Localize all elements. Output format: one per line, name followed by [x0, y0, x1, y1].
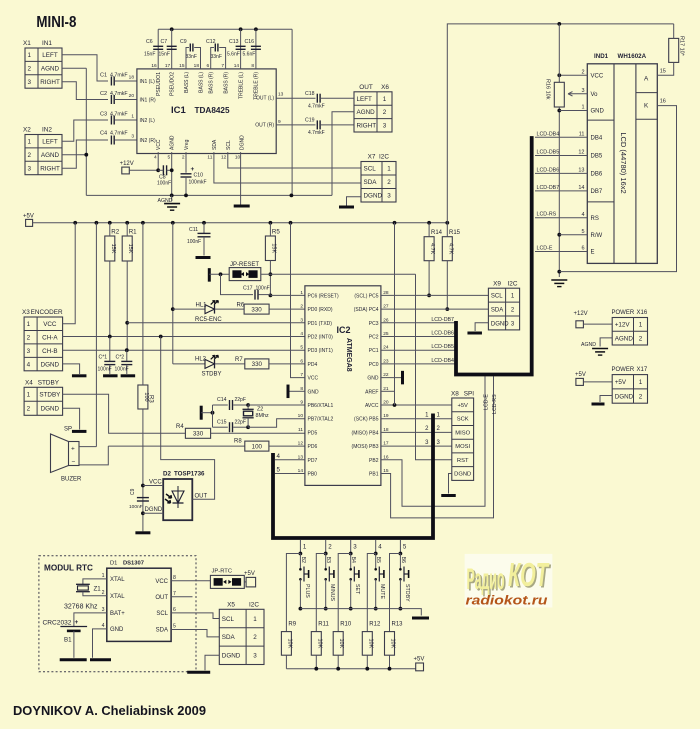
ground left of JP-RESET [209, 268, 229, 282]
svg-text:OUT: OUT [155, 595, 168, 601]
ground X4 DGND [63, 408, 87, 431]
crystal Z2 8Mhz [243, 403, 269, 429]
svg-text:AGND: AGND [581, 342, 596, 348]
svg-text:SCL: SCL [226, 140, 232, 150]
svg-text:RIGHT: RIGHT [40, 79, 60, 86]
svg-text:R10: R10 [340, 622, 352, 628]
svg-text:3: 3 [28, 79, 32, 86]
ground X8 DGND [441, 474, 456, 496]
module box MODUL RTC dotted [39, 556, 196, 672]
svg-text:POWER: POWER [612, 310, 635, 316]
svg-text:K: K [644, 103, 649, 110]
wire LCD-DB7 from bus to LCD [535, 185, 587, 191]
wire SCK to X8 through bus [381, 413, 452, 419]
svg-text:C6: C6 [146, 39, 153, 45]
svg-text:C9: C9 [130, 488, 136, 495]
svg-text:10K: 10K [316, 639, 322, 649]
svg-text:X2: X2 [23, 127, 31, 134]
wire XTAL2 to IC2 [248, 419, 305, 428]
svg-text:GND: GND [308, 389, 320, 395]
svg-text:D1: D1 [110, 561, 117, 567]
wire LCD-RS from bus to LCD [535, 212, 587, 218]
svg-text:6: 6 [581, 246, 584, 252]
capacitor C7 15nF [159, 29, 177, 69]
svg-text:100nF: 100nF [157, 181, 171, 187]
svg-text:5: 5 [581, 229, 584, 235]
svg-text:330: 330 [251, 306, 262, 313]
svg-text:PC2: PC2 [369, 335, 379, 341]
svg-text:PSEUDO2: PSEUDO2 [170, 72, 176, 96]
svg-text:OUT (R): OUT (R) [255, 123, 274, 129]
svg-text:−: − [72, 459, 76, 466]
button B6 STDBY [399, 554, 410, 611]
svg-text:2: 2 [300, 304, 303, 310]
svg-text:SET: SET [354, 584, 360, 595]
ground AGND at X16 [581, 338, 612, 355]
svg-text:1: 1 [27, 321, 31, 328]
svg-text:IN1 (R): IN1 (R) [140, 98, 156, 104]
potentiometer R16 10k contrast [544, 24, 587, 277]
svg-text:1: 1 [28, 139, 32, 146]
capacitor C3 4.7mkF [100, 112, 137, 125]
svg-text:IC1: IC1 [171, 105, 187, 116]
svg-text:32768 Khz: 32768 Khz [64, 604, 98, 611]
ground X17 DGND [592, 396, 613, 405]
svg-text:9: 9 [300, 400, 303, 406]
svg-text:R17 10*: R17 10* [679, 36, 685, 57]
svg-text:100mkF: 100mkF [189, 180, 207, 186]
svg-text:WH1602A: WH1602A [618, 53, 647, 60]
svg-text:X4: X4 [25, 379, 33, 386]
wire OUT L from pin 13 [276, 97, 315, 99]
svg-text:AREF: AREF [365, 389, 378, 395]
svg-text:3: 3 [253, 653, 257, 660]
svg-text:IC2: IC2 [337, 325, 351, 335]
svg-text:PD7: PD7 [308, 458, 318, 464]
svg-text:AGND: AGND [41, 65, 60, 72]
svg-text:R7: R7 [235, 357, 243, 363]
svg-text:R16 10k: R16 10k [544, 79, 550, 100]
svg-text:5.6nF: 5.6nF [243, 52, 256, 58]
svg-text:5: 5 [168, 155, 171, 161]
svg-text:DGND: DGND [222, 653, 241, 660]
svg-text:IN2: IN2 [42, 127, 52, 134]
svg-text:(MISO) PB4: (MISO) PB4 [352, 430, 379, 436]
svg-text:PB7/XTAL2: PB7/XTAL2 [308, 417, 334, 423]
button B2 PLUS [299, 554, 310, 611]
svg-text:1: 1 [131, 114, 134, 120]
svg-text:LCD-DB7: LCD-DB7 [431, 317, 454, 323]
svg-text:C3: C3 [100, 112, 107, 118]
connector X9 I2C [488, 280, 519, 330]
wire LCD K return [559, 106, 676, 272]
capacitor C19 4.7mkF [305, 118, 354, 137]
svg-text:C7: C7 [161, 39, 168, 45]
resistor R17 10 backlight [657, 24, 684, 75]
svg-text:4: 4 [581, 212, 584, 218]
resistor R11 10K pullup [311, 554, 329, 669]
wire LCD-DB6 to bus [381, 331, 455, 337]
svg-text:DB7: DB7 [591, 189, 603, 195]
resistor R2 15K [105, 223, 120, 337]
svg-text:R5: R5 [272, 229, 280, 236]
caption author [13, 704, 206, 718]
crystal Z1 32768 Khz [64, 579, 107, 611]
svg-text:C13: C13 [229, 39, 239, 45]
svg-text:15: 15 [660, 69, 666, 75]
svg-text:SCL: SCL [156, 611, 168, 617]
svg-text:4.7K: 4.7K [429, 243, 435, 255]
svg-text:100: 100 [252, 443, 263, 450]
power pad +5V RTC [244, 571, 256, 587]
power pad +12V [120, 161, 157, 174]
wire X6 AGND return [332, 112, 354, 196]
resistor R9 10K pullup [281, 554, 300, 669]
svg-text:DS1307: DS1307 [123, 561, 144, 567]
svg-text:R2: R2 [111, 229, 119, 236]
svg-text:+5V: +5V [457, 403, 468, 409]
svg-text:4.7K: 4.7K [447, 243, 453, 255]
connector X2 IN2 [23, 127, 62, 175]
svg-text:2: 2 [328, 544, 332, 551]
svg-text:MOSI: MOSI [455, 444, 470, 450]
svg-text:+5V: +5V [244, 571, 255, 577]
svg-text:DB6: DB6 [591, 172, 603, 178]
svg-text:DGND: DGND [454, 472, 471, 478]
wire PB1 to LCD-RS riser [381, 376, 498, 518]
svg-text:15K: 15K [110, 244, 116, 254]
svg-text:C18: C18 [305, 91, 315, 97]
capacitor C1 4.7mkF [100, 73, 137, 86]
svg-text:SDA: SDA [212, 139, 218, 150]
svg-text:B1: B1 [64, 637, 72, 644]
wire SP plus to +5V [79, 223, 96, 447]
svg-text:+12V: +12V [615, 322, 631, 329]
wire SDA to X9 [381, 308, 488, 310]
svg-text:1: 1 [387, 166, 391, 173]
svg-text:Z2: Z2 [257, 407, 263, 413]
svg-text:C17: C17 [243, 286, 253, 292]
svg-text:22pF: 22pF [235, 397, 246, 403]
svg-text:C2: C2 [100, 91, 107, 97]
resistor R8 100 [108, 439, 305, 452]
svg-text:4.7mkF: 4.7mkF [110, 131, 128, 137]
svg-text:Vreg: Vreg [184, 139, 190, 150]
svg-text:SCK: SCK [457, 417, 469, 423]
svg-text:C*2: C*2 [116, 355, 125, 361]
wire LCD-E from bus to LCD [535, 246, 587, 252]
svg-text:C12: C12 [206, 39, 216, 45]
svg-text:Vo: Vo [591, 92, 599, 98]
svg-text:BASS (L): BASS (L) [184, 72, 190, 93]
svg-text:12: 12 [221, 155, 227, 161]
svg-text:LCD-DB4: LCD-DB4 [431, 358, 454, 364]
svg-text:VCC: VCC [155, 579, 168, 585]
svg-text:6: 6 [173, 607, 176, 613]
svg-text:16: 16 [151, 63, 157, 69]
svg-text:BASS (L): BASS (L) [199, 72, 205, 93]
svg-text:4.7mkF: 4.7mkF [110, 112, 128, 118]
svg-text:PB2: PB2 [369, 458, 379, 464]
svg-text:+5V: +5V [575, 372, 586, 378]
svg-text:DGND: DGND [240, 135, 246, 150]
wire D1 SDA to X5 [171, 630, 219, 637]
connector X17 POWER [612, 367, 648, 403]
svg-text:2: 2 [639, 393, 643, 400]
svg-text:1: 1 [581, 105, 584, 111]
svg-text:R9: R9 [288, 622, 296, 628]
svg-text:VCC: VCC [156, 139, 162, 150]
svg-text:5.6nF: 5.6nF [227, 52, 240, 58]
svg-text:SDA: SDA [222, 634, 236, 641]
svg-text:I2C: I2C [249, 601, 259, 608]
svg-text:4.7mkF: 4.7mkF [110, 73, 128, 79]
svg-text:JP-RTC: JP-RTC [212, 569, 233, 575]
clock chip D1 DS1307 [102, 561, 176, 642]
svg-text:MODUL RTC: MODUL RTC [44, 564, 93, 573]
svg-text:VCC: VCC [308, 376, 319, 382]
svg-text:LCD-E: LCD-E [484, 394, 490, 410]
svg-text:+: + [71, 446, 75, 453]
resistor R3 100 IR supply [138, 223, 154, 532]
svg-text:C11: C11 [189, 227, 198, 233]
svg-text:X8: X8 [451, 391, 459, 398]
svg-text:15nF: 15nF [144, 52, 155, 58]
svg-text:13: 13 [278, 92, 284, 98]
svg-text:КОТ: КОТ [508, 556, 550, 593]
svg-text:2: 2 [581, 70, 584, 76]
svg-text:330: 330 [252, 361, 263, 368]
wire IC2 VCC from rail [291, 223, 305, 378]
wire top capacitor rail [158, 27, 292, 31]
svg-text:VCC: VCC [591, 74, 604, 80]
ground X9 DGND [467, 323, 488, 333]
capacitor C14 22pF [213, 397, 249, 410]
svg-text:DGND: DGND [364, 193, 383, 200]
svg-text:SCL: SCL [491, 293, 503, 299]
svg-text:R12: R12 [369, 622, 381, 628]
svg-text:4: 4 [102, 623, 105, 629]
svg-text:4.7mkF: 4.7mkF [308, 104, 325, 110]
svg-text:7: 7 [221, 63, 224, 69]
resistor R14 4.7K [424, 223, 443, 297]
svg-text:(SDA) PC4: (SDA) PC4 [354, 307, 379, 313]
wire +5V LED feed [171, 223, 175, 364]
resistor R5 15K reset pullup [265, 223, 280, 297]
svg-text:3: 3 [387, 193, 391, 200]
capacitor C9 33nF [180, 39, 201, 69]
svg-text:11: 11 [298, 427, 303, 433]
wire bus tap 3 to button B4 [349, 540, 357, 555]
svg-text:CH-B: CH-B [42, 348, 57, 355]
svg-text:100nF: 100nF [115, 367, 129, 373]
connector X1 IN1 [23, 40, 62, 88]
resistor R6 330 [237, 302, 305, 314]
wire AVCC to +5V and X8 [381, 223, 452, 407]
capacitor C15 22pF [213, 420, 249, 433]
svg-text:E: E [591, 250, 595, 256]
svg-text:4: 4 [277, 453, 281, 460]
wire CH-B to IC2 INT1 [63, 348, 305, 352]
svg-text:LEFT: LEFT [42, 139, 58, 146]
button B3 MINUS [324, 554, 335, 611]
svg-text:radiokot.ru: radiokot.ru [466, 593, 548, 608]
svg-text:15nF: 15nF [159, 52, 170, 58]
svg-text:DGND: DGND [615, 393, 634, 400]
svg-text:2: 2 [28, 65, 32, 72]
svg-text:3: 3 [28, 165, 32, 172]
resistor R10 10K pullup [333, 554, 352, 669]
svg-text:Радио: Радио [467, 563, 505, 596]
svg-text:15K: 15K [127, 244, 133, 254]
svg-text:17: 17 [165, 63, 171, 69]
svg-text:A: A [644, 76, 649, 83]
wire LCD GND [559, 110, 587, 112]
svg-text:X16: X16 [637, 310, 648, 316]
capacitor C11 100nF [187, 223, 211, 258]
wire IC1 SCL pin to X7 [228, 152, 361, 168]
LED HL1 RC5-ENC [173, 301, 244, 323]
svg-text:100nF: 100nF [129, 504, 143, 510]
wire reset net to RST riser [219, 272, 416, 276]
svg-text:2: 2 [253, 634, 257, 641]
svg-text:POWER: POWER [612, 367, 635, 373]
ground under C9b [135, 531, 150, 534]
microcontroller IC2 ATMEGA8 [298, 286, 389, 486]
svg-text:SDA: SDA [364, 179, 378, 186]
svg-text:MUTE: MUTE [379, 584, 385, 599]
svg-text:12: 12 [578, 150, 584, 156]
svg-text:2: 2 [182, 155, 185, 161]
wire SCL to X9 [381, 294, 488, 296]
capacitor C9b 100nF at D2 [129, 488, 149, 510]
wire X4 STDBY to R4 [63, 394, 186, 433]
svg-text:LCD-RS: LCD-RS [537, 212, 557, 218]
connector X6 OUT [354, 84, 392, 132]
op-amp IC1 TDA8425 audio processor [137, 63, 284, 161]
svg-text:AGND: AGND [357, 109, 376, 116]
wire TXD net [127, 322, 305, 324]
svg-text:5: 5 [277, 467, 281, 474]
svg-text:STDBY: STDBY [38, 379, 60, 386]
svg-text:3: 3 [383, 123, 387, 130]
svg-text:10K: 10K [286, 639, 292, 649]
svg-text:Z1: Z1 [94, 586, 102, 593]
svg-text:IN2 (R): IN2 (R) [140, 138, 156, 144]
capacitor C4 4.7mkF [100, 131, 137, 145]
svg-text:BAT+: BAT+ [110, 611, 125, 617]
wire +5V riser to LCD [447, 22, 673, 223]
capacitor C6 15nF [144, 29, 163, 69]
svg-text:1: 1 [639, 322, 643, 329]
svg-text:10K: 10K [338, 639, 344, 649]
wire X2 LEFT to C3 [62, 120, 108, 141]
svg-text:18: 18 [129, 75, 135, 81]
capacitor C17 100nF [221, 274, 271, 299]
svg-text:R15: R15 [449, 230, 461, 236]
svg-text:OUT: OUT [195, 494, 208, 500]
ground IC2 GND pin22 [381, 371, 403, 385]
svg-text:LCD (44780) 16x2: LCD (44780) 16x2 [619, 132, 628, 193]
svg-text:15: 15 [179, 63, 185, 69]
svg-text:8: 8 [251, 63, 254, 69]
svg-text:9: 9 [278, 119, 281, 125]
ground X3 DGND [63, 364, 87, 376]
jumper JP-RESET [229, 262, 261, 281]
resistor R4 330 [176, 424, 305, 438]
wire MOSI to X8 through bus [381, 440, 452, 446]
svg-text:SCL: SCL [222, 616, 235, 623]
svg-text:1: 1 [639, 379, 643, 386]
svg-text:DOYNIKOV A. Cheliabinsk 2009: DOYNIKOV A. Cheliabinsk 2009 [13, 704, 206, 718]
svg-text:MISO: MISO [455, 430, 470, 436]
svg-text:I2C: I2C [379, 154, 389, 161]
wire IC1 SDA pin to X7 [214, 152, 361, 183]
svg-text:+5V: +5V [414, 657, 425, 663]
svg-text:CH-A: CH-A [42, 334, 58, 341]
wire X2 RIGHT to C4 [62, 140, 108, 168]
svg-text:2: 2 [383, 109, 387, 116]
capacitor C8 100nF [156, 152, 172, 186]
svg-text:3: 3 [102, 607, 105, 613]
wire LCD-DB5 from bus to LCD [535, 150, 587, 156]
connector X3 ENCODER [22, 309, 63, 371]
wire button pullup +5V line [286, 667, 415, 671]
svg-text:C19: C19 [305, 118, 315, 124]
svg-text:X9: X9 [493, 280, 501, 287]
svg-text:DGND: DGND [491, 321, 509, 327]
svg-text:(SCL) PC5: (SCL) PC5 [354, 293, 378, 299]
svg-text:STDBY: STDBY [404, 584, 410, 602]
wire rail to AGND bus [290, 29, 294, 197]
power pad +12V input [574, 311, 613, 328]
ground D1 GND [90, 629, 111, 660]
svg-text:AGND: AGND [615, 335, 634, 342]
svg-text:R8: R8 [234, 439, 242, 445]
svg-text:PC3: PC3 [369, 321, 379, 327]
svg-text:16: 16 [660, 99, 666, 105]
svg-text:R3: R3 [148, 395, 154, 403]
svg-text:ATMEGA8: ATMEGA8 [345, 338, 352, 372]
resistor R1 15K [122, 223, 137, 350]
svg-text:BASS (R): BASS (R) [224, 72, 230, 94]
svg-text:PD5: PD5 [308, 430, 318, 436]
svg-text:8: 8 [173, 575, 176, 581]
svg-text:SDA: SDA [491, 307, 503, 313]
svg-text:PLUS: PLUS [304, 584, 310, 598]
svg-text:10K: 10K [390, 639, 396, 649]
wire LCD-DB4 to bus [381, 358, 455, 364]
svg-text:C14: C14 [217, 397, 227, 403]
wire PB0 from bus [275, 467, 305, 474]
svg-text:X7: X7 [368, 154, 376, 161]
capacitor C2 4.7mkF [100, 91, 137, 104]
svg-text:4: 4 [27, 361, 31, 368]
svg-text:IND1: IND1 [594, 53, 609, 60]
svg-text:C16: C16 [245, 39, 255, 45]
wire buttons common to ground [300, 609, 429, 618]
capacitor C13 5.6nF [227, 29, 246, 69]
svg-text:PC6 (RESET): PC6 (RESET) [308, 293, 339, 299]
watermark RadioKOT [465, 554, 553, 608]
svg-text:XTAL: XTAL [110, 577, 125, 583]
svg-text:2: 2 [27, 406, 31, 413]
svg-text:2: 2 [639, 335, 643, 342]
svg-text:C10: C10 [194, 173, 204, 179]
svg-text:1: 1 [28, 52, 32, 59]
svg-text:1: 1 [300, 290, 303, 296]
svg-text:X17: X17 [637, 367, 648, 373]
